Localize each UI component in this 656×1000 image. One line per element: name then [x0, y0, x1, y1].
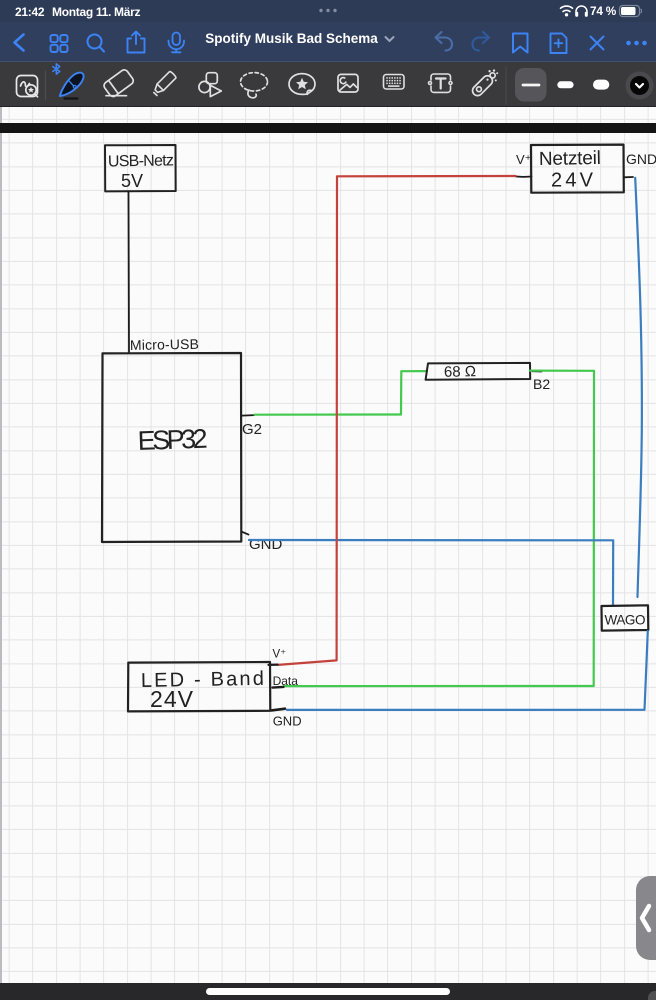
label GND (ESP32)	[249, 536, 283, 553]
wire resistor to WAGO and LED Data (green)	[284, 371, 594, 686]
svg-text:5V: 5V	[121, 171, 143, 191]
side page tab	[636, 876, 656, 960]
nav bar	[0, 22, 656, 61]
label B2	[533, 376, 550, 392]
label 24V (LED-Band)	[150, 686, 194, 712]
label Netzteil	[539, 148, 601, 170]
svg-text:GND: GND	[249, 536, 283, 553]
block Netzteil 24V	[531, 145, 624, 193]
label GND (LED-Band)	[273, 714, 302, 729]
pin stub LED V+	[269, 663, 278, 666]
pin stub LED GND	[272, 709, 286, 711]
toolbar	[0, 61, 656, 107]
pin Data stub	[273, 686, 284, 689]
wire Netzteil GND down (blue)	[635, 178, 642, 597]
label V+ (LED-Band)	[273, 649, 287, 661]
svg-text:GND: GND	[626, 151, 656, 167]
wire Netzteil V+ to LED-Band V+ (red)	[278, 176, 516, 665]
wire USB-Netz to ESP32 (black)	[128, 191, 131, 353]
label 68 ohm	[444, 363, 476, 381]
page separator bar	[0, 123, 656, 134]
label ESP32	[137, 424, 208, 456]
svg-text:Netzteil: Netzteil	[539, 148, 601, 170]
side tab chevron	[636, 876, 656, 960]
svg-text:B2: B2	[533, 376, 550, 392]
wire ESP32 G2 to resistor (green)	[255, 371, 428, 415]
block ESP32	[102, 353, 241, 542]
svg-text:G2: G2	[242, 421, 262, 438]
svg-text:USB-Netz: USB-Netz	[108, 152, 174, 170]
svg-text:Data: Data	[273, 674, 299, 688]
label 24V (Netzteil)	[551, 170, 594, 192]
svg-text:24V: 24V	[150, 686, 194, 712]
svg-text:74 %: 74 %	[590, 4, 617, 18]
pin G2 stub	[242, 414, 254, 417]
wire ESP32 GND to WAGO (blue)	[249, 540, 613, 606]
resistor 68 ohm	[426, 363, 531, 380]
svg-text:WAGO: WAGO	[605, 613, 646, 628]
svg-text:68 Ω: 68 Ω	[444, 363, 476, 381]
label V+ (Netzteil)	[516, 152, 532, 167]
label USB-Netz	[108, 152, 174, 170]
bottom-right corner widget	[648, 991, 656, 1000]
pin B2 stub	[532, 370, 541, 372]
status bar	[0, 0, 656, 22]
pin stub Netzteil V+	[515, 175, 532, 178]
label Micro-USB	[130, 336, 199, 353]
block WAGO	[602, 605, 649, 630]
svg-text:GND: GND	[273, 714, 302, 729]
svg-text:Micro-USB: Micro-USB	[130, 336, 199, 353]
svg-text:ESP32: ESP32	[137, 424, 208, 456]
label 5V	[121, 171, 143, 191]
label WAGO	[605, 613, 646, 628]
wire WAGO to LED-Band GND (blue)	[287, 631, 648, 710]
pin stub Netzteil GND	[624, 176, 633, 178]
pin GND stub (ESP32)	[242, 532, 249, 535]
block USB-Netz 5V	[105, 145, 176, 191]
block LED-Band 24V	[128, 662, 270, 711]
home indicator	[206, 988, 450, 995]
svg-text:V⁺: V⁺	[273, 649, 287, 661]
label Data	[273, 674, 299, 688]
svg-text:24V: 24V	[551, 170, 594, 192]
svg-text:V⁺: V⁺	[516, 152, 532, 167]
label LED-Band	[141, 668, 264, 692]
bottom bar	[0, 983, 656, 1000]
label G2	[242, 421, 262, 438]
label GND (Netzteil)	[626, 151, 656, 167]
